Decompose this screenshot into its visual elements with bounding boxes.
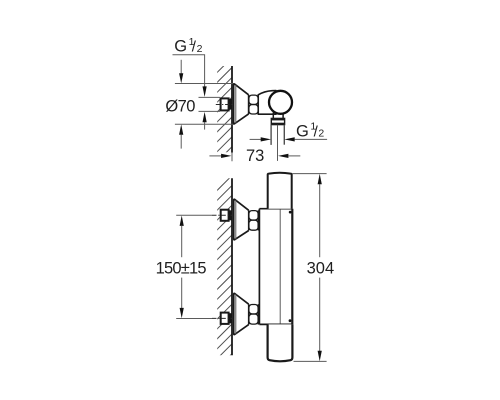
svg-text:G: G [296,122,309,140]
upper escutcheon cone [234,199,249,240]
valve knob circle (top view) [269,91,292,114]
outlet pipe walls [270,125,272,145]
nut extension lines [199,96,220,98]
150±15 dim line + arrows [180,216,184,226]
svg-text:304: 304 [307,259,335,277]
304 dim line + arrows [318,174,322,184]
label G 1/2 lower [296,121,324,141]
hex connector (top view) bead 2 [249,105,258,114]
Ø70 dim arrow lower [179,124,183,134]
svg-text:Ø70: Ø70 [165,98,195,116]
arrow down to nut top [203,86,207,97]
top cap [268,173,292,209]
body inner line [279,210,281,324]
304 extension lines [293,173,327,175]
G 1/2 lower label arrows [250,138,262,140]
body (top view) [258,91,276,115]
upper hex nut behind wall [221,210,229,221]
Ø70 extension lines [175,83,234,85]
bottom cap [268,324,293,361]
svg-text:G: G [174,38,187,56]
wall hatching (bottom view) [216,175,233,370]
svg-text:73: 73 [246,147,264,165]
outlet neck below circle [272,113,274,119]
mixer body (bottom view) [259,209,292,325]
upper hex connector bead 1 [249,211,258,220]
nut centerline [216,104,234,106]
svg-text:2: 2 [318,128,324,140]
lower hex connector bead 1 [249,305,258,314]
150 dim extension lines [176,214,212,216]
wall face line (bottom view) [231,178,233,355]
cone inner line [235,85,237,124]
lower escutcheon cone [234,293,249,334]
arrow up to nut bottom [203,112,207,122]
leader line G1/2 top [173,55,205,87]
cone front edge [248,95,250,114]
hex nut behind wall (top view) [221,98,229,110]
body screw dot bottom [289,319,292,322]
outlet band [271,118,284,124]
hex right edge [257,95,259,114]
svg-text:150±15: 150±15 [156,259,207,277]
Ø70 dim arrow upper [180,60,182,74]
upper hex connector bead 2 [249,220,258,230]
upper union centerline [212,214,233,216]
body screw dot top [289,211,292,214]
escutcheon cone (top view) [234,84,249,124]
lower hex connector bead 2 [249,314,258,324]
label G 1/2 top [174,36,202,56]
lower union centerline [212,317,233,319]
73 dim left extension [231,153,233,162]
hex connector (top view) bead 1 [249,95,258,104]
73 dim arrows [209,155,221,157]
svg-text:2: 2 [197,43,203,55]
wall hatching (top view) [216,57,233,163]
black gap nut-to-wall [229,99,231,110]
wall face line (top view) [231,66,233,153]
lower hex nut behind wall [221,313,229,324]
pipe centerline / 73 extension [277,125,279,161]
